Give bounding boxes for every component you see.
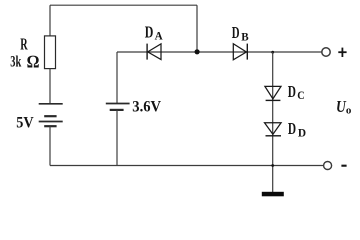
svg-text:D: D xyxy=(288,119,296,138)
diode DC triangle xyxy=(265,86,281,98)
svg-text:C: C xyxy=(297,88,304,102)
svg-text:o: o xyxy=(346,104,352,116)
terminal plus circle xyxy=(322,48,330,56)
battery 5V plate long top xyxy=(39,103,63,105)
wire right column: node to ground (under DC, DD) xyxy=(272,52,274,193)
diode DB triangle xyxy=(233,44,246,60)
resistor R xyxy=(45,36,56,69)
wire middle column upper xyxy=(116,52,118,104)
svg-text:D: D xyxy=(298,125,307,139)
wire top row: battery to plus terminal (under DA, DB) xyxy=(117,51,322,53)
wire left column mid xyxy=(49,69,51,104)
battery 5V plate long lower xyxy=(39,121,63,123)
wire middle column lower xyxy=(116,110,118,166)
wire bottom horizontal xyxy=(50,165,323,167)
svg-text:D: D xyxy=(288,82,296,101)
svg-text:B: B xyxy=(241,29,248,43)
wire top-right vertical drop to node xyxy=(196,5,198,52)
battery 5V plate short xyxy=(44,115,56,117)
wire left column lower xyxy=(49,126,51,165)
node small junction at right branch xyxy=(271,51,274,54)
svg-text:D: D xyxy=(145,23,154,42)
svg-text:3k: 3k xyxy=(10,53,21,70)
terminal minus circle xyxy=(324,162,332,170)
node bottom crossing dot xyxy=(271,164,274,167)
diode DA cathode bar xyxy=(146,44,148,60)
battery 3.6V plate long xyxy=(106,103,130,105)
wire top-left horizontal xyxy=(50,4,197,6)
battery 5V plate short bottom xyxy=(44,125,56,127)
svg-text:A: A xyxy=(155,29,163,43)
svg-text:5V: 5V xyxy=(16,115,34,132)
svg-text:Ω: Ω xyxy=(27,52,39,72)
diode DC cathode bar xyxy=(266,99,281,101)
diode DA triangle xyxy=(148,44,161,60)
plus sign xyxy=(338,51,346,53)
minus sign xyxy=(341,165,346,167)
svg-text:3.6V: 3.6V xyxy=(132,98,161,115)
wire left column upper xyxy=(49,5,51,36)
ground xyxy=(262,192,284,197)
node junction dot xyxy=(195,49,200,54)
svg-text:D: D xyxy=(232,23,240,42)
battery 3.6V plate short xyxy=(110,109,124,111)
diode DD cathode bar xyxy=(266,135,282,137)
svg-text:U: U xyxy=(336,97,346,116)
diode DB cathode bar xyxy=(246,44,248,60)
diode DD triangle xyxy=(265,123,282,135)
